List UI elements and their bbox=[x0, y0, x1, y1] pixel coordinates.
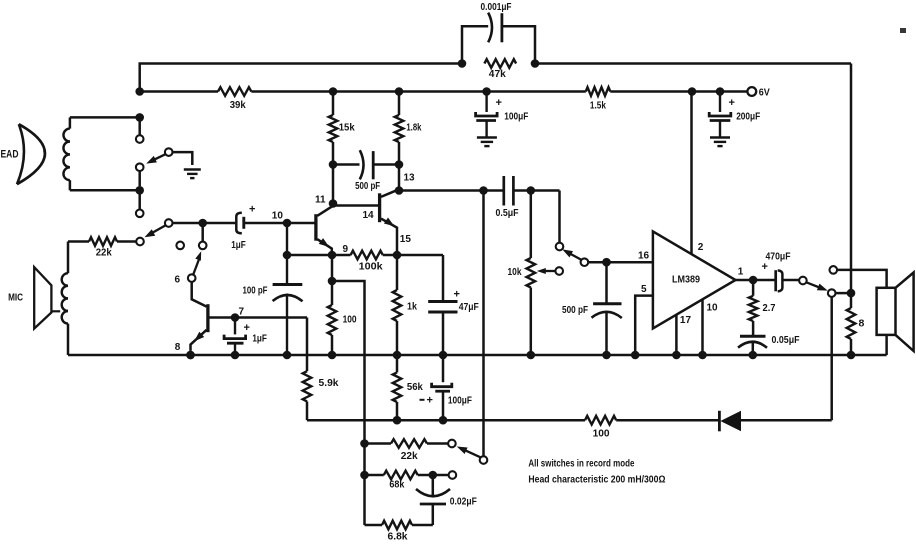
wire 6V supply rail bbox=[140, 90, 218, 93]
wire pin 2 supply bbox=[690, 92, 693, 255]
transistor Q3 emitter bbox=[191, 330, 207, 351]
speaker SPK1 bbox=[877, 288, 896, 335]
potentiometer wiper bbox=[555, 267, 563, 275]
svg-text:+: + bbox=[249, 204, 255, 216]
svg-text:LM389: LM389 bbox=[672, 275, 700, 286]
svg-text:100μF: 100μF bbox=[448, 394, 472, 406]
capacitor 47uF bbox=[442, 255, 445, 300]
svg-text:10: 10 bbox=[707, 302, 719, 313]
svg-text:500 pF: 500 pF bbox=[562, 304, 588, 316]
wire pin 17 ground bbox=[675, 315, 678, 355]
switch output record contact bbox=[828, 289, 836, 297]
svg-text:MIC: MIC bbox=[8, 291, 23, 303]
diode feedback bbox=[718, 411, 721, 432]
svg-text:Head characteristic 200 mH/300: Head characteristic 200 mH/300Ω bbox=[528, 474, 665, 485]
switch output play contact bbox=[830, 266, 838, 274]
svg-text:5.9k: 5.9k bbox=[319, 377, 339, 389]
tape head symbol bbox=[17, 124, 24, 184]
switch EQ arm bbox=[463, 449, 481, 457]
resistor 56k bbox=[396, 355, 399, 372]
inductor mic coil bbox=[67, 242, 70, 274]
wire play contact to speaker bbox=[837, 270, 887, 288]
svg-text:100: 100 bbox=[593, 428, 610, 440]
svg-text:11: 11 bbox=[315, 195, 326, 206]
svg-text:0.5μF: 0.5μF bbox=[496, 207, 519, 219]
resistor 47k bbox=[484, 59, 516, 68]
resistor 100 Q1 emitter bbox=[331, 255, 334, 305]
microphone symbol bbox=[34, 267, 51, 329]
svg-text:16: 16 bbox=[638, 250, 650, 261]
capacitor 0.001uF bbox=[488, 13, 492, 43]
wire 47k bypass loop bbox=[462, 26, 488, 63]
svg-text:500 pF: 500 pF bbox=[355, 180, 380, 192]
transistor Q1 collector bbox=[317, 206, 333, 216]
svg-text:EAD: EAD bbox=[1, 148, 19, 160]
svg-text:10k: 10k bbox=[508, 266, 522, 278]
wire diode to output switch bbox=[830, 297, 833, 420]
svg-text:17: 17 bbox=[680, 315, 692, 326]
wire record line bbox=[172, 222, 235, 225]
svg-text:22k: 22k bbox=[96, 247, 112, 259]
capacitor 1uF emitter bypass bbox=[234, 318, 236, 335]
svg-text:6: 6 bbox=[175, 275, 181, 286]
wire 100k to 47uF corner bbox=[397, 254, 443, 257]
svg-text:100: 100 bbox=[343, 314, 357, 326]
wire pin 13 row bbox=[399, 189, 503, 192]
svg-text:+: + bbox=[729, 97, 735, 109]
switch amp-input record contact bbox=[556, 243, 564, 251]
wire pin 5 ground bbox=[635, 296, 653, 355]
svg-text:All switches in record mode: All switches in record mode bbox=[528, 459, 634, 470]
capacitor 100uF below rail bbox=[442, 355, 445, 382]
capacitor 500pF amp input bbox=[605, 262, 608, 302]
capacitor 0.5uF coupling bbox=[502, 176, 505, 206]
node 7 junction bbox=[231, 313, 240, 322]
svg-text:15: 15 bbox=[400, 234, 412, 245]
wire top feedback rail (head node to output) bbox=[140, 64, 462, 92]
wire pin 10 ground bbox=[701, 300, 704, 356]
resistor 68k play EQ bbox=[365, 474, 384, 477]
svg-text:200μF: 200μF bbox=[736, 111, 760, 123]
svg-text:1μF: 1μF bbox=[231, 239, 246, 251]
svg-text:47μF: 47μF bbox=[459, 301, 479, 313]
capacitor 0.05uF zobel bbox=[740, 335, 766, 338]
op-amp U1 LM389 bbox=[653, 231, 736, 328]
wire pin13 node to EQ switch bbox=[482, 191, 485, 457]
svg-text:10: 10 bbox=[272, 210, 284, 221]
resistor 1k Q2 emitter bbox=[396, 255, 399, 290]
switch EQ common bbox=[480, 456, 488, 464]
svg-text:7: 7 bbox=[239, 307, 245, 318]
svg-text:+: + bbox=[762, 261, 768, 273]
svg-text:1μF: 1μF bbox=[252, 333, 267, 345]
wire feedback rail bbox=[307, 419, 585, 422]
svg-text:8: 8 bbox=[859, 317, 865, 329]
switch head play contact bbox=[138, 190, 141, 209]
svg-text:+: + bbox=[244, 322, 250, 334]
svg-text:100k: 100k bbox=[359, 261, 383, 273]
capacitor 100pF bbox=[286, 223, 288, 283]
transistor Q3 base bar bbox=[206, 304, 209, 332]
resistor 5.9k bbox=[306, 318, 309, 372]
resistor 15k bbox=[332, 92, 335, 116]
capacitor 0.02uF play EQ bbox=[432, 475, 435, 497]
svg-text:68k: 68k bbox=[389, 479, 404, 491]
svg-text:14: 14 bbox=[363, 210, 375, 221]
wire Q3 base to node 7 bbox=[209, 316, 307, 319]
inductor head coil bbox=[69, 117, 72, 128]
svg-text:0.001μF: 0.001μF bbox=[481, 1, 512, 13]
transistor Q3 collector wire bbox=[192, 282, 207, 307]
capacitor 470uF output bbox=[774, 270, 777, 291]
wire output rail right bbox=[850, 64, 853, 305]
svg-text:1: 1 bbox=[738, 266, 744, 277]
wire amp input bbox=[588, 261, 653, 264]
transistor Q2 base bar bbox=[378, 193, 381, 222]
resistor 100k feedback bbox=[351, 251, 383, 260]
svg-text:100 pF: 100 pF bbox=[243, 285, 268, 297]
svg-text:1.8k: 1.8k bbox=[406, 122, 421, 134]
terminal 6V supply bbox=[747, 87, 756, 96]
wire feedback rail right bbox=[616, 419, 719, 422]
resistor 6.8k play EQ bbox=[365, 524, 383, 527]
wire node 9 row bbox=[287, 254, 351, 257]
svg-text:47k: 47k bbox=[489, 68, 506, 80]
switch mic contact bbox=[136, 238, 144, 246]
resistor 100 feedback bbox=[585, 416, 616, 425]
svg-text:6V: 6V bbox=[759, 87, 770, 99]
node 8 junction bbox=[186, 351, 195, 360]
switch output arm bbox=[806, 282, 822, 288]
svg-text:13: 13 bbox=[404, 173, 416, 184]
svg-text:15k: 15k bbox=[339, 122, 355, 134]
wire to EQ network bbox=[332, 281, 365, 525]
svg-text:2: 2 bbox=[698, 242, 704, 253]
node 13 junction bbox=[395, 186, 404, 195]
transistor Q2 collector bbox=[381, 189, 399, 197]
switch EQ play contact bbox=[449, 471, 457, 479]
node 11 wire bbox=[333, 165, 379, 206]
svg-text:2.7: 2.7 bbox=[763, 302, 776, 314]
svg-text:56k: 56k bbox=[407, 381, 423, 393]
resistor 2.7 zobel bbox=[752, 280, 755, 296]
switch output common bbox=[799, 277, 807, 285]
switch record common stem bbox=[201, 223, 204, 242]
svg-text:8: 8 bbox=[175, 342, 181, 353]
wire head bottom to switch node bbox=[70, 189, 140, 192]
node 10 junction bbox=[283, 219, 292, 228]
svg-text:0.05μF: 0.05μF bbox=[772, 334, 800, 346]
switch amp-input arm bbox=[581, 258, 589, 266]
ground record-mode head ground bbox=[184, 168, 201, 170]
wire 1uF to node 10 bbox=[244, 222, 316, 225]
resistor 22k mic series bbox=[68, 240, 89, 243]
resistor 1.5k bbox=[586, 87, 611, 96]
resistor 39k bbox=[218, 87, 251, 96]
switch head-common contact bbox=[136, 163, 144, 171]
switch play contact open bbox=[176, 242, 184, 250]
switch head-top contact bbox=[136, 135, 144, 143]
wire to record contact bbox=[558, 191, 561, 243]
switch ground contact and arm bbox=[165, 148, 173, 156]
ground for 200uF bbox=[710, 136, 730, 138]
capacitor 500pF interstage bbox=[333, 163, 360, 166]
svg-text:39k: 39k bbox=[230, 99, 246, 111]
svg-text:9: 9 bbox=[343, 244, 349, 255]
svg-text:+: + bbox=[454, 289, 460, 301]
resistor 1.8k bbox=[398, 92, 401, 116]
svg-text:22k: 22k bbox=[401, 450, 418, 462]
svg-text:470μF: 470μF bbox=[766, 250, 791, 262]
potentiometer 10k volume bbox=[530, 191, 533, 259]
switch arm to pin 6 bbox=[188, 274, 196, 282]
capacitor 100uF supply bypass bbox=[485, 92, 487, 113]
ground for 100uF bbox=[477, 136, 497, 138]
svg-text:5: 5 bbox=[641, 284, 647, 295]
capacitor 200uF supply bypass bbox=[719, 92, 721, 113]
svg-text:0.02μF: 0.02μF bbox=[450, 496, 477, 508]
svg-text:+: + bbox=[427, 395, 433, 407]
resistor 22k record EQ bbox=[365, 442, 392, 445]
scan speck bbox=[900, 28, 906, 33]
switch record input arm bbox=[165, 219, 173, 227]
transistor Q1 base bar bbox=[314, 214, 317, 241]
transistor Q1 emitter bbox=[317, 239, 332, 255]
wire head top to switch node bbox=[70, 116, 140, 119]
svg-text:6.8k: 6.8k bbox=[388, 531, 408, 543]
capacitor 1uF record coupling bbox=[236, 213, 242, 234]
switch EQ record contact bbox=[448, 440, 456, 448]
svg-text:100μF: 100μF bbox=[504, 111, 528, 123]
resistor 8 speaker load bbox=[847, 308, 856, 339]
transistor Q2 emitter bbox=[381, 219, 397, 255]
wire main ground rail bbox=[68, 354, 887, 357]
svg-text:1.5k: 1.5k bbox=[590, 100, 606, 112]
wire pin 1 output bbox=[736, 279, 776, 282]
svg-text:1k: 1k bbox=[407, 300, 417, 312]
svg-text:+: + bbox=[496, 97, 502, 109]
